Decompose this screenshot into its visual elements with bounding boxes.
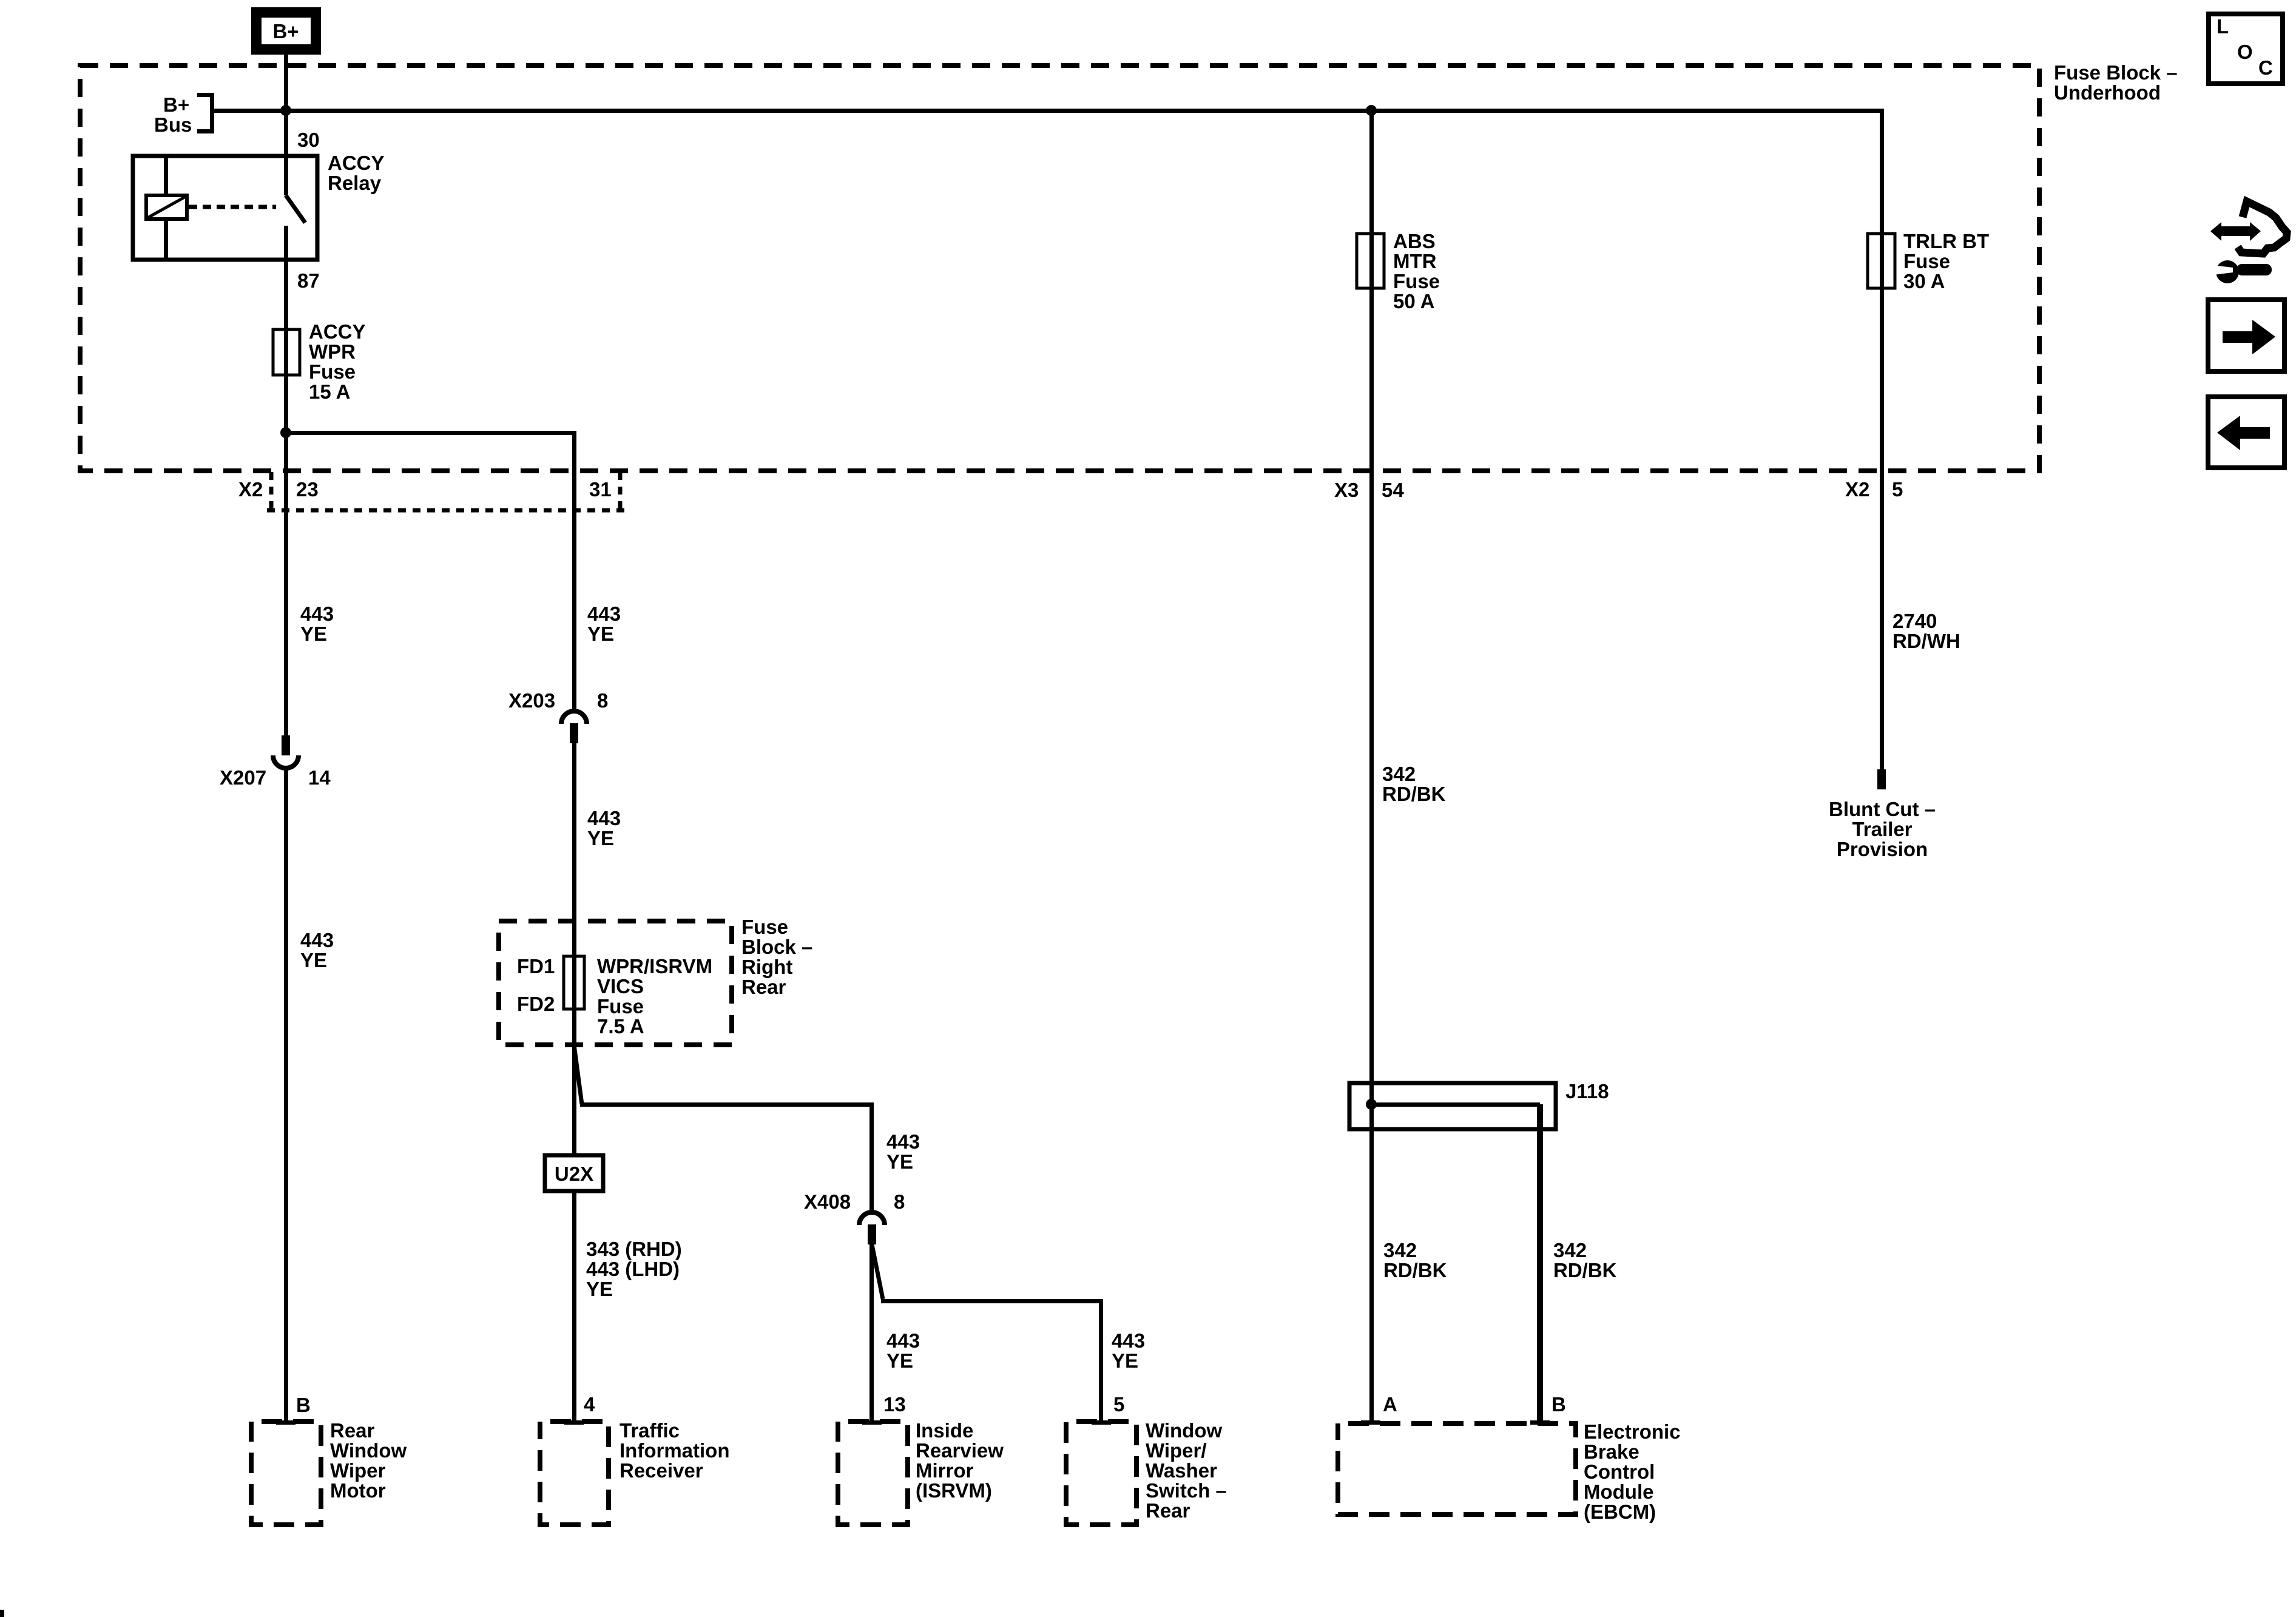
svg-text:Rearview: Rearview bbox=[916, 1439, 1004, 1462]
svg-text:X408: X408 bbox=[804, 1190, 851, 1213]
svg-text:Fuse: Fuse bbox=[741, 916, 788, 938]
svg-text:342: 342 bbox=[1383, 1239, 1417, 1261]
svg-text:Fuse: Fuse bbox=[1903, 250, 1950, 272]
svg-text:YE: YE bbox=[300, 623, 327, 645]
svg-text:VICS: VICS bbox=[597, 975, 644, 998]
svg-text:B: B bbox=[1551, 1393, 1566, 1416]
svg-text:Provision: Provision bbox=[1837, 838, 1928, 860]
svg-text:Fuse: Fuse bbox=[309, 360, 356, 383]
svg-text:342: 342 bbox=[1553, 1239, 1587, 1261]
svg-text:YE: YE bbox=[587, 827, 614, 849]
svg-text:MTR: MTR bbox=[1393, 250, 1437, 272]
svg-text:YE: YE bbox=[886, 1349, 913, 1372]
svg-text:J118: J118 bbox=[1565, 1080, 1609, 1102]
svg-text:443: 443 bbox=[1112, 1329, 1145, 1352]
svg-text:X2: X2 bbox=[238, 478, 263, 501]
svg-text:X3: X3 bbox=[1334, 479, 1359, 501]
svg-text:X203: X203 bbox=[508, 689, 555, 712]
svg-text:WPR/ISRVM: WPR/ISRVM bbox=[597, 955, 712, 977]
svg-text:YE: YE bbox=[586, 1278, 613, 1300]
svg-text:15 A: 15 A bbox=[309, 380, 350, 403]
svg-text:ABS: ABS bbox=[1393, 230, 1436, 252]
svg-text:7.5 A: 7.5 A bbox=[597, 1015, 644, 1038]
svg-text:Fuse: Fuse bbox=[1393, 270, 1440, 292]
svg-text:A: A bbox=[1383, 1393, 1397, 1416]
svg-text:C: C bbox=[2258, 56, 2273, 79]
svg-text:Washer: Washer bbox=[1146, 1459, 1217, 1482]
svg-text:23: 23 bbox=[296, 478, 319, 501]
svg-text:Window: Window bbox=[330, 1439, 407, 1462]
svg-text:Underhood: Underhood bbox=[2054, 81, 2161, 104]
svg-text:8: 8 bbox=[597, 689, 608, 712]
svg-text:YE: YE bbox=[587, 623, 614, 645]
svg-text:ACCY: ACCY bbox=[309, 320, 366, 343]
svg-text:13: 13 bbox=[883, 1393, 906, 1416]
svg-text:30: 30 bbox=[297, 129, 320, 151]
svg-text:342: 342 bbox=[1382, 763, 1416, 785]
svg-text:Switch –: Switch – bbox=[1146, 1479, 1227, 1502]
svg-text:B: B bbox=[296, 1394, 311, 1416]
svg-text:Electronic: Electronic bbox=[1584, 1420, 1681, 1443]
svg-text:2740: 2740 bbox=[1893, 610, 1937, 632]
svg-text:RD/BK: RD/BK bbox=[1383, 1259, 1447, 1281]
svg-text:5: 5 bbox=[1113, 1393, 1124, 1416]
svg-text:443 (LHD): 443 (LHD) bbox=[586, 1258, 680, 1280]
svg-text:Right: Right bbox=[741, 956, 792, 978]
svg-text:443: 443 bbox=[300, 929, 334, 951]
svg-text:Block –: Block – bbox=[741, 936, 812, 958]
svg-text:Motor: Motor bbox=[330, 1479, 386, 1502]
svg-text:Trailer: Trailer bbox=[1852, 818, 1912, 840]
svg-text:Window: Window bbox=[1146, 1419, 1222, 1442]
svg-text:14: 14 bbox=[308, 766, 331, 789]
svg-text:RD/BK: RD/BK bbox=[1382, 783, 1446, 805]
svg-text:U2X: U2X bbox=[555, 1163, 593, 1185]
svg-text:WPR: WPR bbox=[309, 340, 356, 363]
svg-text:O: O bbox=[2237, 41, 2253, 63]
svg-text:Information: Information bbox=[620, 1439, 729, 1462]
svg-text:FD2: FD2 bbox=[517, 993, 555, 1015]
svg-text:Rear: Rear bbox=[741, 976, 786, 998]
svg-text:RD/WH: RD/WH bbox=[1893, 630, 1960, 652]
svg-text:54: 54 bbox=[1382, 479, 1404, 501]
svg-text:YE: YE bbox=[300, 949, 327, 971]
svg-text:X207: X207 bbox=[220, 766, 266, 789]
svg-text:Brake: Brake bbox=[1584, 1440, 1639, 1463]
svg-text:L: L bbox=[2217, 15, 2229, 38]
svg-text:443: 443 bbox=[587, 603, 621, 625]
svg-text:Wiper: Wiper bbox=[330, 1459, 386, 1482]
svg-text:B+: B+ bbox=[163, 93, 189, 116]
svg-text:50 A: 50 A bbox=[1393, 290, 1434, 312]
svg-text:Mirror: Mirror bbox=[916, 1459, 974, 1482]
svg-text:Rear: Rear bbox=[1146, 1499, 1190, 1522]
svg-text:YE: YE bbox=[1112, 1349, 1138, 1372]
svg-text:443: 443 bbox=[886, 1329, 920, 1352]
svg-text:343 (RHD): 343 (RHD) bbox=[586, 1238, 682, 1260]
svg-text:(ISRVM): (ISRVM) bbox=[916, 1479, 992, 1502]
svg-text:8: 8 bbox=[894, 1190, 905, 1213]
svg-text:4: 4 bbox=[584, 1393, 595, 1416]
svg-text:FD1: FD1 bbox=[517, 955, 555, 977]
svg-text:Receiver: Receiver bbox=[620, 1459, 703, 1482]
svg-text:Module: Module bbox=[1584, 1480, 1653, 1503]
svg-text:Fuse Block –: Fuse Block – bbox=[2054, 61, 2178, 84]
svg-text:Control: Control bbox=[1584, 1460, 1655, 1483]
svg-text:31: 31 bbox=[589, 478, 612, 501]
svg-text:Traffic: Traffic bbox=[620, 1419, 680, 1442]
svg-text:443: 443 bbox=[300, 603, 334, 625]
svg-text:YE: YE bbox=[886, 1150, 913, 1173]
svg-text:5: 5 bbox=[1892, 478, 1903, 501]
svg-text:(EBCM): (EBCM) bbox=[1584, 1501, 1656, 1523]
svg-text:Inside: Inside bbox=[916, 1419, 973, 1442]
svg-text:RD/BK: RD/BK bbox=[1553, 1259, 1617, 1281]
svg-text:Rear: Rear bbox=[330, 1419, 375, 1442]
svg-text:Blunt Cut –: Blunt Cut – bbox=[1829, 798, 1936, 820]
svg-text:Bus: Bus bbox=[154, 113, 192, 136]
svg-text:Relay: Relay bbox=[328, 172, 382, 194]
svg-text:B+: B+ bbox=[272, 20, 299, 42]
svg-text:443: 443 bbox=[886, 1130, 920, 1153]
svg-text:443: 443 bbox=[587, 807, 621, 829]
svg-text:Wiper/: Wiper/ bbox=[1146, 1439, 1207, 1462]
svg-text:ACCY: ACCY bbox=[328, 152, 385, 174]
svg-text:Fuse: Fuse bbox=[597, 995, 644, 1018]
svg-text:87: 87 bbox=[297, 269, 320, 292]
svg-text:X2: X2 bbox=[1845, 478, 1869, 501]
svg-text:30 A: 30 A bbox=[1903, 270, 1945, 292]
svg-text:TRLR BT: TRLR BT bbox=[1903, 230, 1989, 252]
